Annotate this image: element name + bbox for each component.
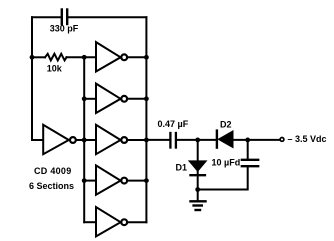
resistor R1 10k <box>32 54 96 61</box>
inverter U1C <box>96 84 146 113</box>
svg-text:6 Sections: 6 Sections <box>29 181 74 191</box>
wire left vertical node A <box>31 17 33 140</box>
wire input bus bottom stub to U1F <box>84 221 96 223</box>
wire filter cap bottom to ground node <box>198 167 248 189</box>
wire input stub row2 <box>84 98 96 100</box>
wire cap to node B <box>177 139 216 141</box>
capacitor C3 10 uFd <box>242 160 258 166</box>
node: output bus row3 junction <box>144 138 149 143</box>
svg-text:330 pF: 330 pF <box>50 24 79 34</box>
svg-text:CD 4009: CD 4009 <box>34 166 71 176</box>
node B: D1/D2 junction <box>195 138 200 143</box>
wire output bus vertical <box>145 17 147 222</box>
wire input stub row3 <box>84 139 96 141</box>
wire D1 to ground node <box>197 171 199 190</box>
node: resistor / input bus junction <box>82 55 87 60</box>
diode D1 (cathode down) <box>189 161 207 175</box>
inverter U1D <box>96 125 146 154</box>
node C: D2 / filter cap junction <box>245 138 250 143</box>
wire left inverter input stub <box>32 139 43 141</box>
svg-text:10k: 10k <box>47 64 63 74</box>
node: input bus row3 junction <box>82 138 87 143</box>
node: output bus row1 junction <box>144 55 149 60</box>
inverter U1A (oscillator section) <box>43 125 84 154</box>
wire top feedback left segment <box>32 16 61 18</box>
node: output bus row2 junction <box>144 96 149 101</box>
wire input bus vertical <box>83 57 85 222</box>
wire input stub row4 <box>84 180 96 182</box>
node: input bus row2 junction <box>82 96 87 101</box>
svg-text:0.47 µF: 0.47 µF <box>158 119 189 129</box>
inverter U1B <box>96 42 146 71</box>
wire output row to coupling cap <box>146 139 169 141</box>
node: ground junction <box>195 187 200 192</box>
svg-text:– 3.5 Vdc: – 3.5 Vdc <box>288 134 327 144</box>
wire node B down to D1 <box>197 140 199 161</box>
capacitor C2 0.47 uF <box>170 133 176 148</box>
wire D2 to node C <box>233 139 280 141</box>
capacitor C1 330 pF <box>62 10 67 25</box>
node: output bus row4 junction <box>144 178 149 183</box>
node: input bus row4 junction <box>82 178 87 183</box>
svg-text:D2: D2 <box>220 120 232 130</box>
diode D2 (cathode left) <box>217 131 233 148</box>
node: left wire / resistor junction <box>30 55 35 60</box>
wire node C down to filter cap <box>247 140 249 159</box>
ground <box>191 190 206 211</box>
inverter U1F <box>96 207 146 236</box>
terminal output -3.5 Vdc <box>280 138 284 142</box>
wire top feedback right segment <box>68 16 146 18</box>
svg-text:10 µFd: 10 µFd <box>212 158 241 168</box>
svg-text:D1: D1 <box>176 163 188 173</box>
inverter U1E <box>96 165 146 194</box>
